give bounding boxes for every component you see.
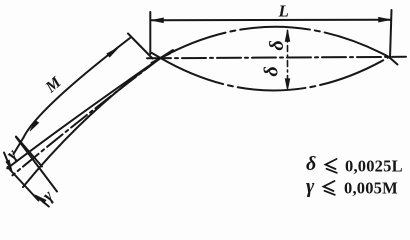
lens bottom arc (chain line) <box>161 57 390 91</box>
arrowhead delta down <box>285 79 290 91</box>
gamma datum tick B <box>8 167 39 201</box>
M extension tick bottom <box>16 137 42 167</box>
element overshoot beyond tip 1 <box>161 50 174 58</box>
lens bottom arc back-extension at left tip <box>152 53 161 58</box>
arrowhead L right <box>379 17 391 22</box>
svg-text:δ: δ <box>261 66 283 76</box>
element lower edge line <box>23 58 161 187</box>
lens bottom arc overshoot at right tip <box>389 57 398 65</box>
horizontal centerline (dash-dot) <box>147 57 406 59</box>
element overshoot beyond tip 2 <box>161 54 171 59</box>
arrowhead M upper <box>107 47 119 57</box>
arrowhead L left <box>151 18 163 23</box>
svg-text:L: L <box>278 2 289 21</box>
gamma arrow lower <box>37 196 49 206</box>
lens top arc back-extension at left tip <box>152 58 161 63</box>
element centerline (dash-dot) <box>13 58 161 175</box>
svg-text:0,0025L: 0,0025L <box>345 157 403 176</box>
lens top arc (chain line) <box>161 27 390 58</box>
svg-text:δ: δ <box>306 153 316 175</box>
M dimension line <box>24 38 131 138</box>
M line overshoot lower <box>14 138 24 155</box>
svg-text:δ: δ <box>266 40 288 50</box>
extension line left (L) <box>149 12 151 54</box>
arrowhead delta up <box>285 30 290 42</box>
M extension tick top <box>128 34 153 59</box>
svg-text:γ: γ <box>306 176 315 198</box>
delta dimension line (vertical) <box>287 31 289 90</box>
arrowhead M lower <box>30 120 39 131</box>
svg-text:0,005M: 0,005M <box>344 179 398 198</box>
dimension line L <box>152 19 391 22</box>
element upper edge line <box>7 58 160 168</box>
gamma arrow upper <box>4 153 11 170</box>
extension line right (L) <box>390 10 392 58</box>
gamma datum tick A <box>16 137 57 192</box>
